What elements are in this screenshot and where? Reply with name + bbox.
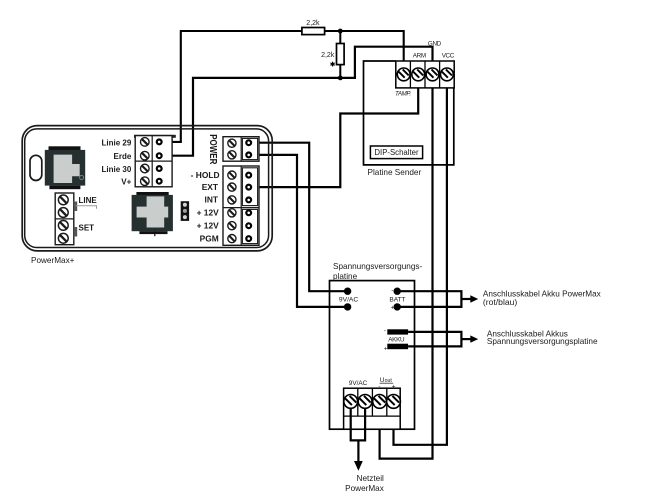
wire Netzteil U — [350, 401, 367, 440]
svg-text:TAMP.: TAMP. — [395, 90, 411, 97]
screw HOLD — [228, 171, 236, 179]
RJ jack J2 top tab — [136, 192, 168, 195]
hole EXT — [246, 185, 251, 190]
svg-text:PowerMax: PowerMax — [345, 484, 384, 493]
LINE tab — [74, 202, 77, 212]
screw SET b — [58, 233, 68, 243]
svg-text:Netzteil: Netzteil — [357, 474, 384, 483]
svg-text:+: + — [392, 383, 396, 390]
LINE/SET terminal block — [55, 193, 74, 245]
screw TAMP — [397, 68, 410, 81]
hole Linie30 — [157, 166, 162, 171]
screw EXT — [228, 183, 236, 191]
DIP-Schalter box — [370, 146, 422, 159]
middle terminal block top bar — [134, 135, 176, 138]
screw V+ — [141, 177, 150, 186]
screw 12V a — [228, 209, 236, 217]
arrow Akku PowerMax — [461, 298, 471, 300]
svg-text:-: - — [391, 287, 393, 294]
screw 12V b — [228, 222, 236, 230]
svg-text:POWER: POWER — [208, 134, 219, 164]
svg-text:Platine Sender: Platine Sender — [368, 168, 422, 177]
wire Erde net — [159, 78, 340, 156]
terminal BATT bottom dot — [394, 303, 401, 310]
wire VCC long run to Uout plus — [394, 74, 447, 444]
screw POWER 2 — [228, 151, 236, 159]
PowerMax+ device outer case — [22, 126, 272, 251]
hole PGM — [246, 236, 251, 241]
arrow Netzteil — [357, 440, 359, 462]
screw Erde — [141, 151, 150, 160]
svg-text:+ 12V: + 12V — [197, 208, 220, 218]
screw LINE b — [58, 208, 68, 218]
svg-text:BATT: BATT — [389, 296, 405, 303]
AKKU connector top — [387, 329, 408, 334]
RJ jack J2 socket cross — [137, 196, 169, 227]
svg-text:INT: INT — [205, 195, 219, 205]
svg-text:Spannungsversorgungsplatine: Spannungsversorgungsplatine — [487, 337, 598, 346]
screw GND — [426, 68, 439, 81]
resistor R1 2,2k — [302, 28, 325, 35]
SET tab — [74, 227, 77, 237]
hole POWER 2 — [246, 153, 251, 158]
hole 12V b — [246, 223, 251, 228]
arrow Akkus Spannungsversorgungsplatine — [461, 338, 471, 340]
svg-text:V+: V+ — [121, 178, 131, 187]
HOLD/EXT/INT/12V/12V/PGM terminal block — [223, 166, 259, 245]
oval slot — [30, 155, 42, 180]
svg-text:+: + — [384, 345, 388, 352]
label R2 asterisk — [331, 62, 335, 67]
RJ jack J2 bottom tab — [139, 231, 167, 234]
terminal 9VAC top dot — [344, 288, 351, 295]
screw 9VAC 1 — [344, 395, 358, 409]
svg-text:VCC: VCC — [442, 53, 455, 60]
RJ jack J1 top tab — [49, 146, 81, 150]
screw PGM — [228, 235, 236, 243]
bottom terminal strip — [344, 388, 401, 429]
svg-text:2,2k: 2,2k — [306, 20, 320, 27]
svg-text:9V/AC: 9V/AC — [349, 380, 368, 387]
hole Erde — [157, 153, 162, 158]
PowerMax+ device inner case line — [25, 129, 269, 248]
jumper header — [181, 201, 189, 221]
svg-text:platine: platine — [333, 272, 358, 281]
wire GND long run to Uout minus — [380, 74, 433, 458]
svg-text:DIP-Schalter: DIP-Schalter — [374, 148, 419, 157]
RJ jack J1 bottom tab — [49, 186, 80, 190]
svg-text:Linie 30: Linie 30 — [102, 165, 132, 174]
wire Linie29 to R1 — [159, 31, 303, 142]
screw Uout plus — [387, 395, 401, 409]
hole HOLD — [246, 173, 251, 178]
svg-text:ARM: ARM — [413, 53, 426, 60]
svg-text:-: - — [378, 383, 380, 390]
hole POWER 1 — [246, 140, 251, 145]
wire R2 bottom to junction — [339, 64, 341, 79]
svg-text:+: + — [391, 304, 395, 311]
svg-text:9V/AC: 9V/AC — [339, 296, 358, 303]
Spannungsversorgungsplatine box — [330, 281, 415, 430]
LINE pointer line — [76, 206, 97, 209]
screw Uout minus — [373, 395, 387, 409]
RJ jack J1 pin dot — [80, 176, 84, 180]
wire POWER row2 to 9VAC bottom — [249, 155, 345, 307]
Platine Sender box — [364, 61, 454, 165]
svg-text:(rot/blau): (rot/blau) — [483, 297, 518, 307]
wire POWER row1 to 9VAC top — [249, 143, 345, 292]
RJ jack J2 body — [132, 195, 173, 231]
svg-text:Erde: Erde — [114, 152, 132, 161]
RJ jack J1 body — [45, 150, 85, 186]
screw INT — [228, 196, 236, 204]
wire BATT bracket — [397, 290, 461, 308]
wire Erde net to GND screw — [339, 47, 432, 78]
screw 9VAC 2 — [358, 395, 372, 409]
svg-text:-: - — [384, 328, 386, 335]
sender terminal strip — [396, 61, 454, 88]
svg-text:EXT: EXT — [202, 182, 219, 192]
svg-text:+ 12V: + 12V — [197, 221, 220, 231]
hole V+ — [157, 179, 162, 184]
svg-text:GND: GND — [428, 41, 442, 48]
middle terminal block — [135, 136, 172, 187]
hole 12V a — [246, 210, 251, 215]
screw ARM — [412, 68, 425, 81]
screw POWER 1 — [228, 139, 236, 147]
screw VCC — [441, 68, 454, 81]
svg-text:Linie 29: Linie 29 — [102, 138, 132, 147]
POWER terminal block — [223, 137, 259, 162]
svg-text:SET: SET — [79, 224, 95, 233]
terminal 9VAC bottom dot — [344, 303, 351, 310]
svg-text:PowerMax+: PowerMax+ — [31, 256, 75, 265]
svg-text:Uout: Uout — [380, 377, 393, 384]
screw Linie30 — [141, 164, 150, 173]
RJ jack J1 socket cross — [54, 155, 80, 183]
hole INT — [246, 198, 251, 203]
screw SET a — [58, 221, 68, 231]
RJ jack J2 center pin line — [154, 231, 156, 236]
AKKU connector bottom — [387, 344, 408, 350]
wire AKKU bracket — [408, 331, 461, 348]
svg-text:LINE: LINE — [79, 196, 98, 205]
screw Linie29 — [141, 138, 150, 147]
resistor R2 2,2k — [337, 44, 345, 65]
svg-text:AKKU: AKKU — [388, 337, 405, 344]
junction dot top — [338, 29, 343, 34]
terminal BATT top dot — [394, 288, 401, 295]
svg-text:PGM: PGM — [200, 233, 219, 243]
hole Linie29 — [157, 140, 162, 145]
svg-text:Spannungsversorgungs-: Spannungsversorgungs- — [333, 262, 422, 271]
svg-text:- HOLD: - HOLD — [191, 170, 220, 180]
svg-text:2,2k: 2,2k — [321, 52, 335, 59]
wire EXT to ARM screw — [249, 74, 419, 187]
wire R1 to TAMP — [324, 31, 404, 74]
wire junction to R2 top — [339, 30, 341, 45]
junction dot bottom — [338, 76, 343, 81]
screw LINE a — [58, 195, 68, 205]
